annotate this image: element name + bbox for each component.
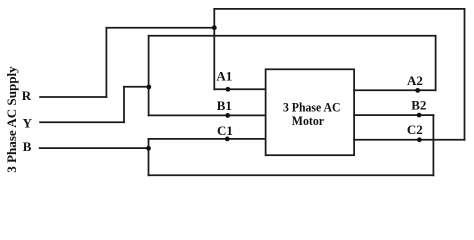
- node J1: R junction dot: [212, 25, 217, 30]
- wire: B supply horizontal: [40, 147, 149, 149]
- terminal dot A2: [415, 88, 420, 93]
- svg-text:Y: Y: [23, 115, 33, 130]
- terminal dot C2: [417, 137, 422, 142]
- wire: left bus upper vertical: [148, 36, 150, 116]
- svg-text:B1: B1: [217, 98, 232, 113]
- wire: bottom loop horizontal B-to-B2: [149, 174, 434, 176]
- svg-text:Motor: Motor: [292, 113, 324, 128]
- motor U1: 3 Phase AC Motor box: [266, 69, 355, 155]
- wire: A2 terminal lead: [354, 89, 436, 91]
- wire: left bus lower vertical: [148, 139, 150, 175]
- terminal dot C1: [225, 137, 230, 142]
- wire: R feed to node J1: [106, 27, 214, 29]
- wire: right drop vertical to C2: [464, 9, 466, 140]
- svg-text:C2: C2: [407, 122, 423, 137]
- wire: B2 riser vertical: [432, 115, 434, 175]
- wire: B2 terminal lead: [354, 114, 433, 116]
- node J2: Y junction dot: [146, 85, 151, 90]
- wire: R riser vertical: [105, 28, 107, 97]
- wire: B1 terminal lead: [149, 114, 266, 116]
- wire: top loop horizontal A1-to-C2: [214, 8, 464, 10]
- wire: Y supply horizontal: [40, 121, 124, 123]
- wire: second loop horizontal B1-to-A2: [149, 35, 436, 37]
- node J3: B junction dot: [146, 146, 151, 151]
- svg-text:A1: A1: [216, 68, 232, 83]
- svg-text:3 Phase AC Supply: 3 Phase AC Supply: [4, 66, 19, 173]
- wire: A1 drop vertical: [213, 9, 215, 89]
- svg-text:A2: A2: [407, 73, 423, 88]
- wire: A1 terminal lead: [214, 88, 265, 90]
- wire: A2 drop vertical: [435, 36, 437, 91]
- terminal dot A1: [226, 87, 231, 92]
- wire: C1 terminal lead: [149, 138, 266, 140]
- svg-text:R: R: [22, 88, 32, 103]
- terminal dot B2: [417, 113, 422, 118]
- terminal dot B1: [225, 113, 230, 118]
- wire: C2 terminal lead: [354, 139, 464, 141]
- wire: R supply horizontal: [40, 96, 106, 98]
- wire: Y feed to node J2: [124, 86, 149, 88]
- svg-text:C1: C1: [217, 123, 233, 138]
- svg-text:B2: B2: [411, 98, 426, 113]
- svg-text:B: B: [23, 139, 32, 154]
- wire: Y riser vertical: [123, 87, 125, 122]
